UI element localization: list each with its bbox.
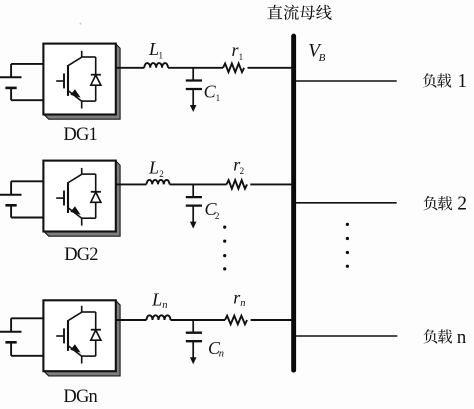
svg-text:L: L (148, 39, 159, 59)
svg-text:DG2: DG2 (64, 245, 98, 265)
svg-text:2: 2 (215, 211, 220, 221)
label C1 (204, 82, 221, 104)
capacitor C1 (186, 68, 202, 106)
svg-text:DGn: DGn (63, 387, 97, 407)
DC source E1 (battery) (0, 64, 44, 100)
DC source En (battery) (0, 318, 44, 356)
label VB (bus voltage) (308, 40, 325, 64)
wire resistor to bus (251, 319, 293, 321)
converter block DG1 shadow (44, 44, 120, 119)
label Ln (151, 289, 167, 311)
label r2 (233, 154, 244, 176)
converter block DGn box (43, 300, 115, 371)
svg-text:2: 2 (457, 194, 467, 215)
label 直流母线 (DC bus) (267, 5, 331, 20)
wire load 1 (295, 80, 396, 82)
speck artifact (80, 23, 82, 25)
wire load n (295, 335, 397, 337)
inductor L2 (147, 180, 170, 184)
resistor r1 (223, 64, 244, 73)
converter block DG2 shadow (44, 161, 120, 236)
wire DG1 output to inductor (116, 67, 145, 69)
label C2 (205, 199, 220, 221)
wire DGn output to inductor (116, 319, 147, 321)
ellipsis dots (right column, between load 2 and load n) (346, 223, 349, 268)
freewheeling diode D2 (91, 174, 101, 218)
DC source E2 (battery) (0, 181, 44, 217)
capacitor Cn (186, 320, 202, 358)
svg-text:L: L (148, 157, 159, 177)
label Cn (208, 338, 224, 359)
DC bus bar (291, 36, 296, 370)
resistor r2 (227, 180, 248, 189)
wire inductor to resistor (168, 67, 223, 69)
svg-text:2: 2 (159, 169, 164, 179)
svg-text:1: 1 (159, 51, 164, 61)
ellipsis dots (left column, between C2 and Cn) (223, 226, 226, 271)
label r1 (232, 40, 244, 62)
wire resistor to bus (250, 183, 292, 185)
label 负载 2 (424, 194, 467, 215)
label L1 (148, 39, 163, 61)
svg-text:n: n (219, 349, 224, 360)
ground arrow of Cn (190, 357, 197, 364)
label 负载 n (424, 327, 467, 348)
svg-text:1: 1 (457, 71, 467, 92)
ground arrow of C2 (190, 222, 197, 229)
freewheeling diode Dn (91, 312, 101, 356)
IGBT Qn (56, 306, 95, 364)
resistor rn (225, 316, 247, 325)
wire resistor to bus (248, 67, 293, 69)
svg-text:DG1: DG1 (63, 125, 97, 145)
IGBT Q1 (56, 51, 95, 109)
label L2 (148, 157, 164, 179)
converter block DG1 box (43, 44, 115, 115)
svg-text:n: n (162, 300, 167, 311)
ground arrow of C1 (190, 105, 197, 112)
wire inductor to resistor (171, 319, 226, 321)
converter block DG2 box (43, 161, 115, 232)
svg-text:n: n (457, 327, 467, 348)
freewheeling diode D1 (91, 57, 101, 101)
svg-text:n: n (240, 298, 245, 309)
svg-text:B: B (319, 52, 326, 64)
svg-text:2: 2 (240, 166, 245, 176)
label 负载 1 (423, 71, 467, 92)
wire load 2 (295, 202, 396, 204)
svg-text:1: 1 (216, 93, 221, 103)
inductor Ln (147, 315, 171, 320)
wire DG2 output to inductor (116, 183, 147, 185)
wire inductor to resistor (170, 183, 227, 185)
capacitor C2 (186, 184, 202, 222)
converter block DGn shadow (44, 301, 120, 376)
inductor L1 (144, 63, 168, 68)
IGBT Q2 (56, 168, 95, 226)
svg-text:1: 1 (239, 52, 244, 62)
label rn (233, 288, 245, 309)
svg-text:L: L (151, 289, 162, 309)
